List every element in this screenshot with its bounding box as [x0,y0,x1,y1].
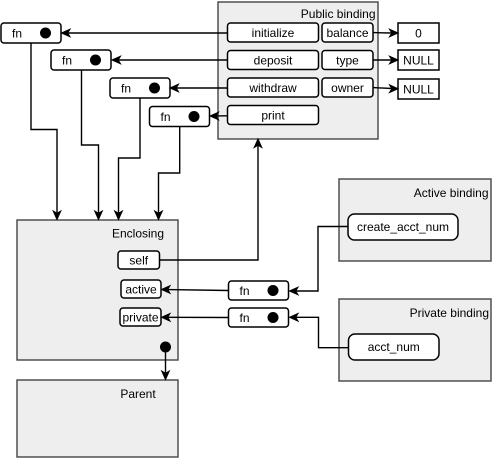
container Enclosing [17,220,178,360]
svg-text:fn: fn [161,110,171,124]
svg-text:self: self [129,253,148,267]
svg-text:fn: fn [240,311,250,325]
wire acct_num to fn6 [290,314,349,348]
fn box fn5 (create_acct_num) [229,281,289,300]
wire fn4 down to Enclosing [155,127,180,220]
fn box fn1 (initialize) [1,23,61,43]
svg-text:Public binding: Public binding [301,7,376,21]
box initialize [228,23,319,42]
svg-text:NULL: NULL [403,82,434,96]
svg-text:fn: fn [121,81,131,95]
box type [322,51,373,70]
wire deposit to fn2 [112,56,228,64]
node circle in Enclosing [160,342,171,353]
box acct_num [349,334,440,360]
svg-text:owner: owner [331,81,364,95]
box self [118,251,160,269]
wire self to Public binding bottom [160,139,262,260]
wire fn6 to private [162,314,229,322]
svg-text:Private binding: Private binding [410,306,489,320]
wire fn2 down to Enclosing [82,70,103,220]
box create_acct_num [348,214,458,240]
container Private binding [339,299,491,381]
svg-text:Active binding: Active binding [414,186,489,200]
value box 0 [398,23,439,43]
wire print to fn4 [210,112,228,120]
wire initialize to fn1 [62,29,228,37]
box private [120,308,161,326]
box deposit [228,51,319,70]
fn box fn3 (withdraw) [110,78,170,98]
svg-text:initialize: initialize [252,26,295,40]
svg-text:acct_num: acct_num [368,340,420,354]
svg-text:private: private [122,310,158,324]
wire fn3 down to Enclosing [115,98,140,220]
svg-text:create_acct_num: create_acct_num [357,220,449,234]
wire withdraw to fn3 [170,84,228,92]
svg-text:NULL: NULL [403,53,434,67]
svg-text:fn: fn [240,284,250,298]
svg-text:Enclosing: Enclosing [112,227,164,241]
wire owner to NULL [373,85,398,93]
wire balance to 0 [373,29,398,37]
box active [121,280,161,298]
svg-text:deposit: deposit [254,53,293,67]
svg-text:type: type [336,53,359,67]
wire Enclosing node to Parent [162,353,170,380]
svg-text:active: active [125,282,157,296]
wire fn1 down to Enclosing [31,43,61,220]
wire type to NULL [373,56,398,64]
svg-text:0: 0 [415,26,422,40]
fn box fn4 (print) [150,107,210,127]
value box NULL (owner) [398,79,439,99]
wire fn5 to active [162,286,229,294]
svg-text:withdraw: withdraw [248,81,297,95]
svg-text:print: print [261,108,285,122]
box print [228,106,319,125]
fn box fn6 (acct_num) [229,308,289,327]
box balance [322,23,373,42]
svg-text:balance: balance [326,26,368,40]
fn box fn2 (deposit) [51,50,111,70]
svg-text:fn: fn [12,26,22,40]
container Active binding [339,179,491,261]
svg-text:fn: fn [62,53,72,67]
box withdraw [228,78,319,97]
value box NULL (type) [398,50,439,70]
container Public binding [218,2,378,139]
box owner [322,78,373,97]
svg-text:Parent: Parent [120,387,156,401]
wire create_acct_num to fn5 [290,227,349,295]
container Parent [17,380,178,457]
